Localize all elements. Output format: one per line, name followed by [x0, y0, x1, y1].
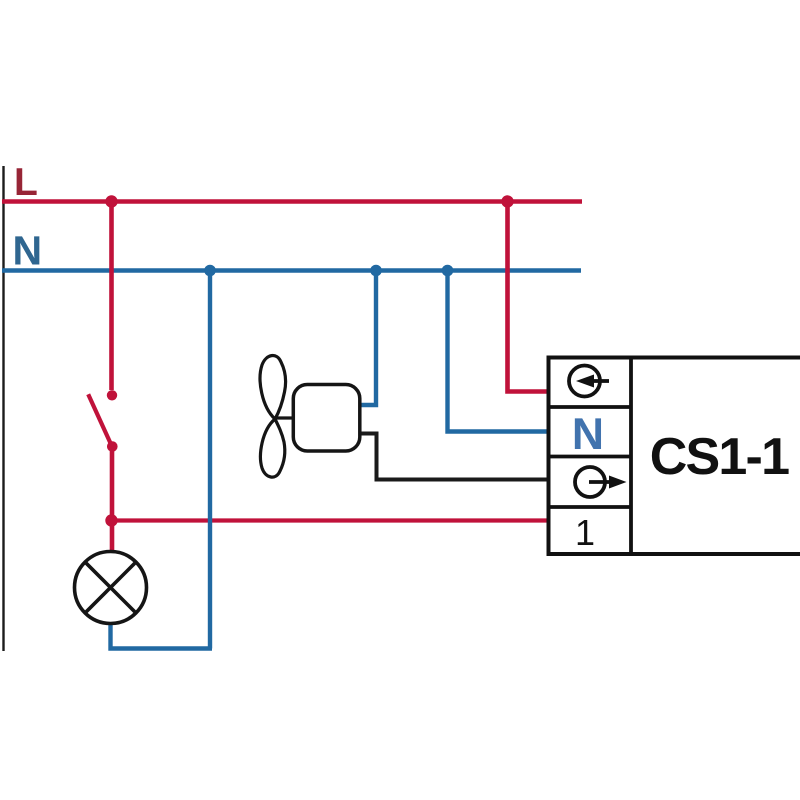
wire: N bus: [2, 268, 581, 273]
svg-text:N: N: [13, 228, 43, 274]
junction: N bus / lamp return drop: [204, 265, 216, 277]
junction: L bus / switch drop: [105, 195, 117, 207]
wire: lamp return bottom run: [111, 622, 213, 649]
svg-text:1: 1: [575, 512, 595, 553]
wire: N bus drop to lamp return: [208, 271, 212, 649]
switch S1 blade: [88, 394, 112, 446]
wire: L bus: [2, 199, 582, 204]
svg-text:L: L: [14, 161, 38, 204]
wire: lamp node to device terminal 1: [112, 518, 549, 522]
junction: N bus / device N drop: [442, 265, 454, 277]
svg-text:CS1-1: CS1-1: [650, 428, 789, 486]
wire: switch S1 to lamp E1: [110, 448, 115, 550]
wire: left reference rail: [2, 166, 4, 651]
junction: N bus / fan drop: [370, 265, 382, 277]
wire: fan M1 to device output terminal: [360, 434, 548, 480]
fan M1 propeller: [260, 356, 286, 478]
svg-text:N: N: [572, 410, 604, 459]
fan M1 shaft stub: [276, 416, 295, 419]
switch S1 lower contact: [107, 441, 118, 452]
switch S1 upper contact: [107, 390, 117, 400]
wire: L bus to switch S1: [109, 202, 114, 391]
lamp E1: [75, 552, 147, 624]
wire: L bus drop to device supply terminal: [508, 202, 549, 392]
junction: L bus / device supply drop: [501, 195, 513, 207]
device U1 box outline: [547, 356, 800, 557]
fan M1 motor body: [293, 385, 360, 452]
junction: lamp node / terminal 1 wire: [105, 514, 117, 526]
wire: N bus drop to device terminal N: [448, 271, 549, 432]
terminal: supply input symbol (arrow into circle): [569, 366, 609, 397]
device U1 terminal column: [549, 358, 632, 555]
terminal: output symbol (arrow out of circle): [575, 467, 627, 497]
wire: N bus drop to fan M1: [360, 271, 376, 406]
